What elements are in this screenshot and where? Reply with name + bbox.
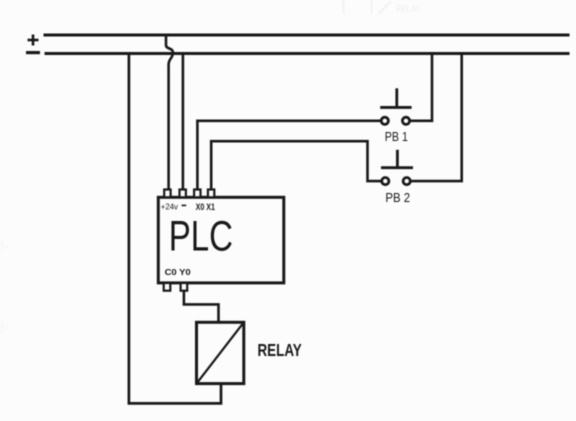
wire: negative rail to relay return (left drop, bottom run, up to relay)	[129, 54, 221, 404]
wire: PLC X1 terminal to PB2 left contact	[211, 141, 381, 189]
ghost relay coil line 1 (faded artifact, top)	[343, 0, 345, 13]
svg-text:PLC: PLC	[169, 212, 233, 260]
svg-text:3-: 3-	[0, 319, 10, 336]
wire: negative rail to PLC - terminal	[182, 54, 185, 190]
negative supply rail	[45, 52, 570, 55]
wire: PB1 right contact to negative rail	[409, 54, 432, 121]
PLC terminal C0 (pin 5, bottom)	[164, 283, 171, 291]
wire: PLC Y0 terminal to relay coil top	[184, 291, 219, 323]
pushbutton PB2 actuator bar	[381, 166, 413, 169]
ghost relay diagonal (faded artifact, top)	[378, 1, 391, 14]
pin label - (superscript minus after +24v)	[182, 204, 187, 206]
PLC terminal - (pin 2)	[180, 190, 186, 198]
svg-text:PB 1: PB 1	[385, 129, 408, 144]
svg-text:RELAY: RELAY	[258, 341, 303, 360]
pushbutton PB1 actuator stem	[395, 88, 398, 107]
pushbutton PB1 left contact	[381, 117, 388, 124]
PLC terminal Y0 (pin 6, bottom)	[181, 283, 188, 291]
PLC terminal X0 (pin 3)	[194, 190, 200, 198]
pushbutton PB1 right contact	[402, 117, 409, 124]
pushbutton PB2 actuator stem	[396, 150, 399, 168]
PLC terminal X1 (pin 4)	[208, 190, 214, 198]
svg-text:PB 2: PB 2	[385, 190, 410, 205]
label + (positive rail)	[28, 35, 39, 46]
label - (negative rail)	[26, 51, 40, 54]
svg-text:RELAY: RELAY	[396, 3, 421, 14]
relay K1 coil diagonal	[197, 322, 244, 383]
PLC module U1 (body)	[158, 197, 283, 283]
wire: PLC X0 terminal to PB1 left contact	[197, 121, 380, 190]
pushbutton PB2 right contact	[403, 178, 410, 185]
wire: positive rail to PLC +24v terminal (with hop over negative rail)	[166, 35, 173, 190]
svg-text:3-: 3-	[0, 238, 10, 255]
svg-text:X0 X1: X0 X1	[196, 202, 216, 212]
pushbutton PB1 actuator bar	[380, 106, 411, 109]
positive supply rail	[44, 34, 570, 37]
ghost relay coil line 2 (faded artifact, top)	[371, 0, 373, 13]
relay K1 coil (body)	[197, 322, 244, 383]
wire: PB2 right contact to negative rail	[410, 54, 462, 182]
svg-text:C0 Y0: C0 Y0	[165, 268, 191, 278]
PLC terminal +24v (pin 1)	[164, 190, 170, 198]
svg-text:+24v: +24v	[161, 202, 179, 211]
pushbutton PB2 left contact	[382, 178, 389, 185]
